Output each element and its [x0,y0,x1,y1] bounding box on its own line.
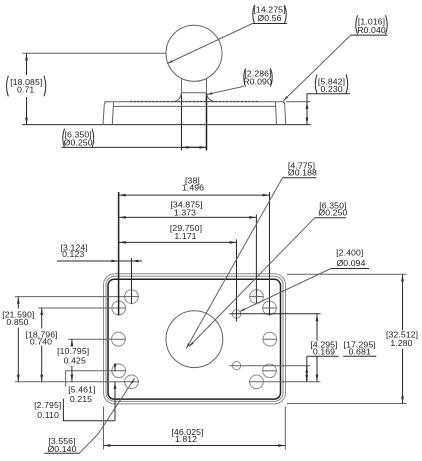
svg-text:1.280: 1.280 [390,338,412,348]
svg-text:Ø0.140: Ø0.140 [47,444,76,454]
svg-text:Ø0.094: Ø0.094 [336,258,365,268]
svg-text:0.850: 0.850 [6,317,28,327]
svg-text:R0.090: R0.090 [243,76,272,86]
svg-text:0.71: 0.71 [17,85,34,95]
svg-text:0.425: 0.425 [64,355,86,365]
svg-text:Ø0.188: Ø0.188 [288,168,317,178]
svg-text:0.681: 0.681 [349,347,371,357]
svg-text:R0.040: R0.040 [357,25,386,35]
svg-text:0.123: 0.123 [62,249,84,259]
svg-text:Ø0.250: Ø0.250 [318,208,347,218]
svg-text:1.496: 1.496 [182,183,204,193]
svg-text:1.812: 1.812 [175,434,197,444]
svg-text:Ø0.56: Ø0.56 [257,13,281,23]
svg-text:Ø0.250: Ø0.250 [64,138,93,148]
svg-text:[2.795]: [2.795] [34,400,61,410]
svg-text:0.215: 0.215 [70,394,92,404]
svg-text:0.169: 0.169 [313,347,335,357]
svg-text:0.230: 0.230 [320,84,342,94]
svg-text:[2.400]: [2.400] [336,248,363,258]
svg-text:1.373: 1.373 [174,207,196,217]
svg-text:1.171: 1.171 [174,231,196,241]
svg-text:0.110: 0.110 [37,410,59,420]
svg-text:0.740: 0.740 [30,337,52,347]
